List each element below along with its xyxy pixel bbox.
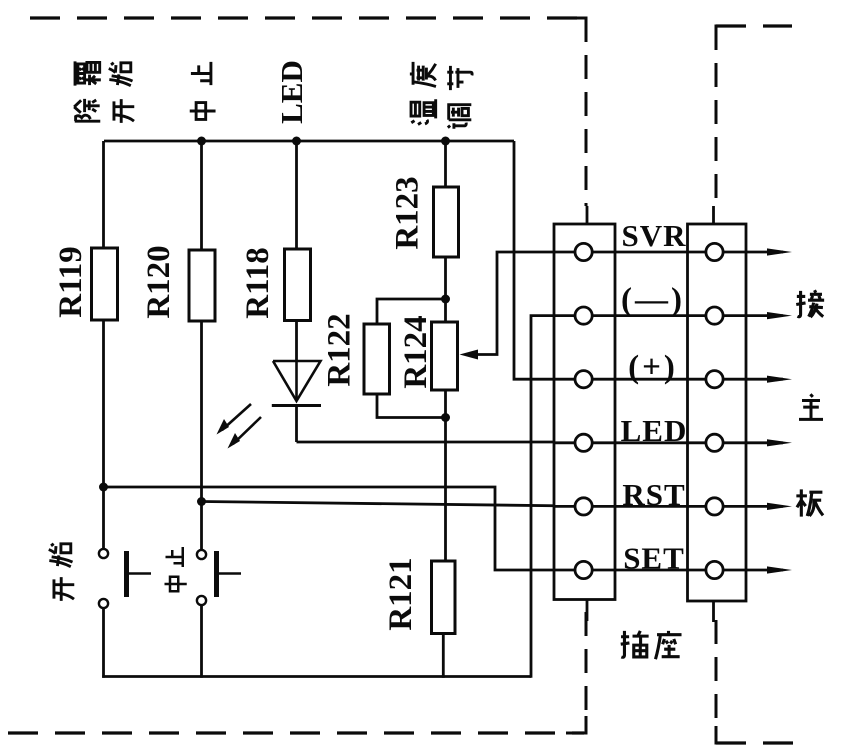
control board dashed border bottom — [8, 731, 584, 734]
LED light emission arrows — [217, 404, 262, 449]
potentiometer R124 top wire — [444, 299, 447, 322]
switch S1 start contact bottom — [99, 599, 108, 608]
control board dashed border top-right corner — [566, 18, 586, 34]
main board dashed border left lower — [715, 620, 718, 743]
svg-text:R118: R118 — [240, 247, 276, 319]
wire socket row (—) left-block segment — [554, 314, 688, 317]
wire R123 bottom — [444, 257, 447, 299]
svg-text:R119: R119 — [53, 246, 89, 318]
wire socket row RST left-block segment — [554, 505, 688, 508]
wire top bus — [104, 140, 514, 143]
pin socket right SET — [706, 561, 723, 578]
resistor R122 — [364, 324, 390, 394]
resistor R118 — [285, 249, 311, 321]
node junction top bus / R118 column — [292, 137, 301, 146]
svg-text:RST: RST — [622, 477, 685, 512]
socket right block top stub — [712, 206, 715, 224]
control board dashed border right lower — [585, 612, 588, 733]
wire arrow SET to main board — [746, 566, 792, 573]
wire abort switch lower — [200, 605, 203, 678]
wire R122 top branch — [377, 299, 446, 324]
wire arrow RST to main board — [746, 503, 792, 510]
pin socket right RST — [706, 498, 723, 515]
switch S2 abort actuator — [217, 551, 242, 597]
node junction R124/R121 — [441, 413, 450, 422]
label 除霜 (defrost) — [74, 61, 101, 121]
wire socket row SVR right-block segment — [688, 251, 747, 254]
node junction R123/R122/R124 — [441, 295, 450, 304]
wire arrow (+) to main board — [746, 376, 792, 383]
wire SVR to R124 wiper — [460, 252, 576, 360]
socket left block bottom stub — [586, 600, 589, 622]
pin socket right LED — [706, 434, 723, 451]
wire abort switch upper — [200, 502, 203, 551]
label 主 — [799, 394, 823, 419]
pin socket left SET — [575, 561, 592, 578]
control board dashed border right upper — [585, 18, 588, 206]
wire R120 bottom — [200, 321, 203, 502]
socket right block bottom stub — [712, 601, 715, 622]
socket left block top stub — [586, 206, 589, 224]
wire R118 top — [295, 141, 298, 249]
wire socket row (+) left-block segment — [554, 378, 688, 381]
wire R121 bottom — [442, 634, 445, 678]
wire R120 top — [200, 141, 203, 250]
control board dashed border bottom-right corner — [566, 716, 586, 733]
potentiometer R124 bottom wire — [444, 390, 447, 418]
wire bottom rail — [102, 675, 531, 678]
switch S2 abort contact bottom — [197, 596, 206, 605]
svg-text:R122: R122 — [322, 313, 358, 386]
LED D1 diode — [272, 361, 321, 406]
wire socket row SVR left-block segment — [554, 251, 688, 254]
pin socket left (+) — [575, 371, 592, 388]
main board dashed border bottom-left corner — [716, 726, 734, 743]
pin socket left (—) — [575, 307, 592, 324]
svg-text:R120: R120 — [141, 245, 177, 318]
label 插座 (socket) — [621, 631, 682, 659]
wire R123 top — [444, 141, 447, 187]
wire plus pin to top bus — [514, 141, 576, 379]
wire arrow LED to main board — [746, 439, 792, 446]
pin socket left RST — [575, 498, 592, 515]
wire socket row SET right-block segment — [688, 569, 747, 572]
resistor R121 — [432, 561, 456, 634]
node junction A (start column) — [99, 483, 108, 492]
switch S1 start actuator — [127, 551, 152, 597]
switch S1 start contact top — [99, 549, 108, 558]
switch S2 abort contact top — [197, 550, 206, 559]
svg-text:LED: LED — [274, 60, 309, 124]
resistor R123 — [434, 187, 459, 257]
main board dashed border top-left corner — [716, 26, 736, 44]
main board dashed border top — [716, 24, 792, 27]
pin socket left LED — [575, 434, 592, 451]
label 接 — [796, 290, 824, 317]
wire socket row RST right-block segment — [688, 505, 747, 508]
label 板 — [796, 489, 823, 516]
control board dashed border top — [30, 16, 586, 19]
wire R121 top — [444, 418, 447, 562]
wire R118 to LED — [295, 321, 298, 363]
pin socket right (—) — [706, 307, 723, 324]
svg-text:SET: SET — [623, 541, 685, 576]
label 中止 (abort) — [190, 62, 216, 120]
wire socket row LED right-block segment — [688, 441, 747, 444]
wire SET from junction A — [104, 487, 576, 570]
svg-text:R121: R121 — [383, 557, 419, 630]
wire arrow SVR to main board — [746, 248, 792, 255]
main board dashed border left upper — [715, 26, 718, 206]
wire LED row to socket — [297, 441, 576, 444]
svg-text:LED: LED — [621, 413, 688, 448]
wire start switch upper — [102, 487, 105, 549]
pin socket left SVR — [575, 243, 592, 260]
node junction top bus / R123 column — [441, 137, 450, 146]
wire LED cathode down — [295, 406, 298, 443]
label 调节 (adjust) — [447, 66, 472, 129]
wire start switch lower — [102, 608, 105, 678]
resistor R119 — [92, 248, 118, 320]
svg-text:R124: R124 — [398, 315, 434, 388]
connector socket right block body — [688, 224, 747, 601]
svg-text:SVR: SVR — [621, 218, 686, 253]
node junction top bus / R120 column — [197, 137, 206, 146]
wire R119 bottom — [102, 320, 105, 487]
wire RST from junction B — [202, 502, 576, 507]
pin socket right (+) — [706, 371, 723, 388]
label 开始 switch S1 — [49, 544, 75, 601]
wire arrow (—) to main board — [746, 312, 792, 319]
svg-text:(—): (—) — [621, 282, 685, 318]
wire R119 top — [102, 141, 105, 248]
label 温度 (temperature) — [410, 62, 436, 125]
pin socket right SVR — [706, 243, 723, 260]
wire socket row (—) right-block segment — [688, 314, 747, 317]
main board dashed border bottom — [716, 741, 794, 744]
wire socket row LED left-block segment — [554, 441, 688, 444]
resistor R120 — [189, 250, 215, 321]
wire socket row (+) right-block segment — [688, 378, 747, 381]
wire socket row SET left-block segment — [554, 569, 688, 572]
node junction B (abort column) — [197, 497, 206, 506]
wire minus pin to rail — [531, 316, 576, 678]
svg-text:(+): (+) — [628, 350, 678, 386]
label 中止 switch S2 — [165, 547, 187, 591]
potentiometer R124 — [432, 322, 458, 390]
svg-text:R123: R123 — [390, 176, 426, 249]
wire R122 bottom branch — [377, 394, 446, 418]
label 开始 (start) — [109, 63, 135, 123]
connector socket left block body — [554, 224, 615, 600]
